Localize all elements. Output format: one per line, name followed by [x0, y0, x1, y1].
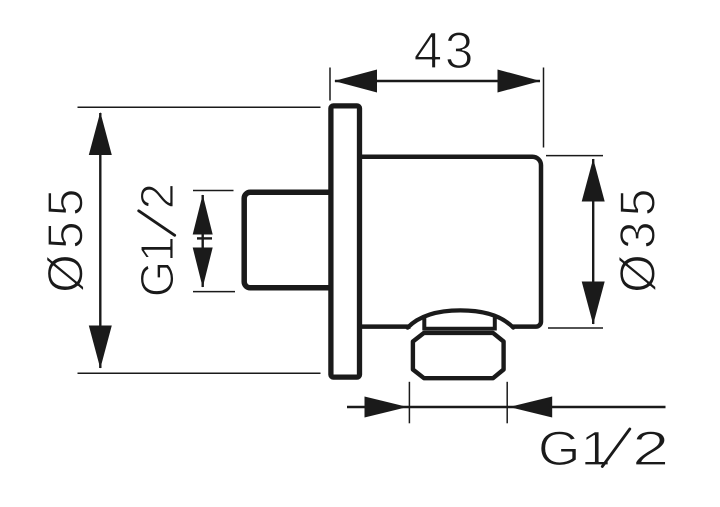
- wall flange plate: [331, 106, 360, 377]
- dim 43: dimension line: [335, 80, 540, 82]
- dim 43: left arrowhead: [334, 70, 377, 93]
- main body outline: [360, 157, 542, 327]
- dim O35: label: [619, 191, 656, 292]
- dim G1/2 thread: label: [139, 185, 175, 294]
- dim G1/2 nut: dimension line: [347, 406, 666, 408]
- dim O55: bottom extension line: [78, 372, 321, 374]
- dim O35: dimension line: [592, 159, 594, 324]
- dim G1/2 nut: label: [541, 429, 666, 467]
- hose nut octagon: [413, 333, 504, 378]
- dim O35: down arrowhead: [582, 282, 605, 325]
- dim G1/2 thread: bottom extension line: [193, 291, 235, 293]
- wall connector thread: [244, 192, 331, 287]
- dim O55: top extension line: [78, 106, 321, 108]
- dim G1/2 nut: right arrowhead: [509, 397, 552, 418]
- dim O55: top arrowhead: [89, 112, 112, 155]
- outlet dome: [408, 310, 514, 327]
- dim O55: label: [47, 191, 84, 292]
- dim G1/2 thread: dimension line: [201, 195, 203, 287]
- collar right vertical: [493, 318, 497, 331]
- dim O55: bottom arrowhead: [89, 326, 112, 369]
- collar bottom line: [425, 327, 495, 331]
- dim 43: right arrowhead: [498, 70, 541, 93]
- dim G1/2 thread: top extension line: [193, 190, 234, 192]
- dim G1/2 nut: left arrowhead: [365, 397, 408, 418]
- dim G1/2 thread: up arrowhead: [193, 195, 213, 235]
- dim O35: top extension line: [546, 155, 603, 157]
- dim G1/2 nut: left extension line: [408, 382, 410, 424]
- dim 43: label: [415, 32, 471, 69]
- dim O35: up arrowhead: [582, 159, 605, 202]
- dim 43: left extension line: [329, 68, 331, 101]
- dim G1/2 thread: down arrowhead: [193, 248, 213, 288]
- dim O55: dimension line: [99, 113, 101, 368]
- collar left vertical: [422, 318, 426, 331]
- dim O35: bottom extension line: [548, 327, 603, 329]
- dim G1/2 thread: middle tick: [197, 237, 212, 239]
- dim 43: right extension line: [543, 68, 545, 148]
- dim G1/2 nut: right extension line: [506, 382, 508, 424]
